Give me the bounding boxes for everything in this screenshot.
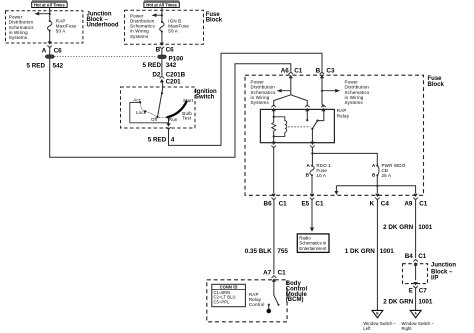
svg-text:Systems: Systems [9,35,28,40]
arrow to right note [322,90,336,92]
arrow to left note [281,90,291,92]
svg-text:Systems: Systems [130,34,149,39]
wire relay to B6 C1 [273,147,275,193]
connector B6 C1 [271,194,276,200]
svg-text:1001: 1001 [380,248,395,255]
svg-text:C1: C1 [418,253,427,260]
Hot at All Times label (middle) [144,0,179,8]
dotted connector line C6 [54,56,157,58]
wiper arm from C201 feed to Off [158,87,163,117]
svg-text:755: 755 [277,248,288,255]
svg-text:C7: C7 [419,288,428,295]
arrow wire to radio schematics [311,199,313,228]
relay pin connector top right [321,105,326,111]
svg-text:A6: A6 [281,67,290,74]
svg-text:Acc: Acc [133,98,142,103]
svg-text:B6: B6 [264,200,273,207]
svg-text:B4: B4 [405,253,414,260]
svg-text:5 RED: 5 RED [26,63,45,70]
wire 1 DK GRN 1001 to left window switch [376,199,378,310]
svg-text:Junction: Junction [431,263,456,269]
svg-text:Right: Right [402,326,413,331]
wire through junction block [415,264,417,280]
relay coil winding [274,117,287,137]
svg-text:Off: Off [151,117,158,122]
svg-text:E: E [409,288,413,295]
svg-text:5 RED: 5 RED [148,136,167,143]
junction block I/P dashed box [403,264,428,284]
svg-text:C1: C1 [294,67,303,74]
wire 0.35 BLK 755 [273,199,275,274]
svg-text:B: B [372,172,376,177]
wire relay common to fuses [311,147,313,166]
svg-text:B: B [156,47,161,54]
svg-text:1 DK GRN: 1 DK GRN [345,248,376,255]
svg-text:A: A [42,47,47,54]
dashed link Off to Run [159,116,168,118]
wire into ignition switch [162,80,163,87]
fuse RAP MaxiFuse 50 A [48,20,52,32]
svg-text:Test: Test [182,116,191,121]
svg-text:Block: Block [428,82,445,88]
connector at ignition box exit [166,123,171,129]
svg-text:A7: A7 [263,270,272,277]
svg-text:Systems: Systems [251,100,270,105]
svg-text:E5: E5 [301,200,309,207]
svg-text:Start: Start [183,98,194,103]
relay switch contacts [306,109,308,120]
junction block underhood dashed box [6,11,83,43]
fuse IGN B MaxiFuse 50 A [160,21,164,33]
svg-text:4: 4 [171,136,175,143]
connector A9 C1 [413,194,418,200]
svg-text:Switch: Switch [195,94,215,100]
svg-text:C3: C3 [326,67,335,74]
RAP relay box [260,109,334,142]
wire RDO fuse down to E5 [311,175,313,193]
svg-text:C4: C4 [381,200,390,207]
svg-text:I/P: I/P [431,276,438,282]
svg-text:Underhood: Underhood [87,23,119,29]
dashed actuator link [288,126,311,128]
svg-text:342: 342 [166,62,177,69]
svg-text:5 RED: 5 RED [142,62,161,69]
svg-text:Left: Left [363,326,371,331]
svg-text:10 A: 10 A [316,173,326,178]
detent travel arc Acc-Lock-Off [140,102,157,117]
connector K C4 [375,194,380,200]
svg-text:0.35 BLK: 0.35 BLK [245,248,272,255]
svg-text:Relay: Relay [337,113,350,118]
off-page triangle window switch right [410,310,421,317]
svg-text:K: K [370,200,375,207]
svg-text:(BCM): (BCM) [286,297,304,303]
svg-text:2 DK GRN: 2 DK GRN [383,224,414,231]
wire hot feed down [161,8,163,22]
svg-text:Run: Run [169,117,178,122]
svg-text:1001: 1001 [418,224,433,231]
svg-text:Radio: Radio [299,235,311,240]
svg-text:Lock: Lock [136,110,147,115]
svg-text:C201: C201 [166,78,182,85]
svg-text:CONN ID: CONN ID [220,285,238,290]
BCM internal switch [274,281,279,305]
off-page triangle window switch left [372,310,383,317]
svg-text:2 DK GRN: 2 DK GRN [383,299,414,306]
wire fuse to box edge [49,31,51,43]
svg-text:C1: C1 [315,200,324,207]
thick arc Start to Run [167,101,186,117]
fuse block small dashed box [125,10,204,44]
relay pin connector top middle [305,105,310,111]
svg-text:Hot at All Times: Hot at All Times [146,3,177,8]
ignition switch dashed box [121,87,196,128]
svg-text:25 A: 25 A [382,173,392,178]
CONN ID table [212,284,246,306]
svg-text:D2: D2 [152,71,161,78]
resistor R (relay) [272,122,276,130]
svg-text:50 A: 50 A [168,29,178,34]
wire 2 DK GRN 1001 (lower) [415,287,417,310]
connector E5 C1 [310,194,315,200]
svg-text:B: B [316,67,321,74]
svg-text:Hot at All Times: Hot at All Times [34,3,65,8]
arrow to power distribution note [39,13,50,15]
svg-text:Schematics in: Schematics in [299,241,327,246]
svg-text:1001: 1001 [418,299,433,306]
wire 2 DK GRN 1001 (upper) [415,199,417,258]
svg-text:C201B: C201B [166,71,186,78]
wire CB down and branch [376,175,378,193]
BCM dashed box [207,280,287,322]
svg-text:50 A: 50 A [56,29,66,34]
grommet P100 oval [158,55,167,59]
accessory feed loop wire [130,102,169,122]
Lock terminal [144,110,146,112]
connector B C6 [160,43,165,49]
fuse block dashed box [245,75,424,195]
svg-text:A9: A9 [404,200,413,207]
Hot at All Times label (left) [32,0,67,8]
wire from hot feed down to RAP fuse [49,8,51,22]
stub arrow to other circuits [335,186,337,192]
svg-text:C1: C1 [279,200,288,207]
svg-text:C1: C1 [419,200,428,207]
wire to box edge [161,32,163,45]
wire A6 fork to relay pins [274,78,308,106]
run output wire [168,117,170,124]
svg-text:C1: C1 [278,270,287,277]
svg-text:C6: C6 [54,47,63,54]
svg-text:542: 542 [53,63,64,70]
wire B C3 down to relay [322,78,323,107]
svg-text:C5=PPL: C5=PPL [214,300,231,305]
svg-text:Block: Block [206,18,223,24]
svg-text:C6: C6 [166,47,175,54]
svg-text:Entertainment: Entertainment [299,246,327,251]
svg-text:Block –: Block – [431,269,453,275]
arrow to note (middle) [156,14,162,16]
radio schematics box [297,234,329,253]
connector E C7 [413,282,418,288]
connector A C6 [47,41,52,47]
svg-text:B: B [306,172,310,177]
relay pin connector top left [271,105,276,111]
svg-text:Systems: Systems [345,100,364,105]
relay coil left wire with resistor [273,109,275,142]
grommet P100 left oval [45,55,54,59]
svg-text:A: A [306,163,310,168]
Acc terminal [139,101,141,103]
relay pin connectors (bottom) [271,142,276,148]
Off terminal [156,116,158,118]
svg-text:A: A [372,163,376,168]
svg-text:Control: Control [249,302,265,307]
